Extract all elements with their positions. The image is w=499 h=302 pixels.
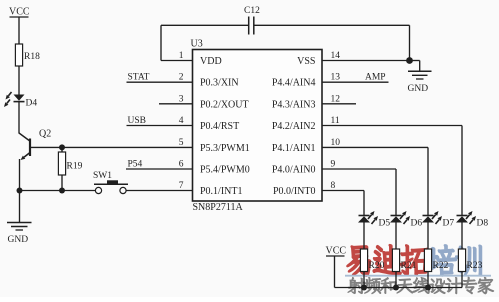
svg-text:12: 12 bbox=[331, 94, 341, 104]
svg-text:1: 1 bbox=[179, 51, 184, 61]
watermark subtitle 射频和天线设计专家 bbox=[348, 277, 494, 294]
node USB (pin 4 wire) bbox=[127, 116, 193, 126]
svg-text:4: 4 bbox=[179, 116, 184, 126]
resistor R20 bbox=[360, 249, 384, 272]
svg-text:P5.4/PWM0: P5.4/PWM0 bbox=[200, 165, 250, 176]
ground GND (top right) bbox=[408, 71, 432, 94]
svg-text:9: 9 bbox=[331, 160, 336, 170]
junction emitter/rail bbox=[17, 188, 23, 194]
svg-text:10: 10 bbox=[331, 138, 341, 148]
svg-text:D6: D6 bbox=[411, 219, 423, 229]
LED D7 bbox=[422, 211, 454, 229]
svg-text:R20: R20 bbox=[369, 261, 385, 271]
svg-text:P5.3/PWM1: P5.3/PWM1 bbox=[200, 143, 250, 154]
wire D7 to R22 bbox=[427, 223, 429, 250]
svg-text:8: 8 bbox=[331, 181, 336, 191]
watermark underline bbox=[345, 275, 491, 277]
resistor R22 bbox=[424, 249, 448, 272]
svg-text:13: 13 bbox=[331, 73, 341, 83]
wire D5 to R20 bbox=[363, 223, 365, 250]
svg-text:P0.1/INT1: P0.1/INT1 bbox=[200, 186, 243, 197]
svg-text:P4.1/AIN1: P4.1/AIN1 bbox=[272, 143, 316, 154]
wire pin 12 stub bbox=[322, 103, 356, 105]
svg-text:D8: D8 bbox=[477, 219, 489, 229]
wire Q2 emitter down bbox=[19, 159, 21, 191]
wire R22 to VCC rail bbox=[427, 272, 429, 288]
wire D6 to R21 bbox=[395, 223, 397, 250]
wire SW1 to pin 7 (P0.1/INT1) bbox=[126, 190, 192, 192]
junction R19/rail bbox=[59, 188, 65, 194]
svg-text:P4.0/AIN0: P4.0/AIN0 bbox=[272, 165, 316, 176]
wire pin 10 to D7 bbox=[322, 146, 428, 148]
svg-text:R21: R21 bbox=[401, 261, 417, 271]
junction base/R19 bbox=[59, 144, 65, 150]
svg-text:11: 11 bbox=[331, 116, 340, 126]
ground GND (left) bbox=[7, 191, 32, 246]
LED D4 bbox=[4, 92, 37, 109]
svg-text:P0.0/INT0: P0.0/INT0 bbox=[273, 186, 316, 197]
wire pin 1 up to C12 net bbox=[160, 25, 162, 60]
resistor R18 bbox=[15, 44, 40, 66]
svg-text:STAT: STAT bbox=[128, 73, 150, 83]
wire Q2 base to pin 5 (P5.3/PWM1) bbox=[30, 146, 193, 148]
svg-text:SN8P2711A: SN8P2711A bbox=[193, 202, 244, 213]
bottom rail wire (emitter/GND) bbox=[20, 190, 96, 192]
svg-text:VCC: VCC bbox=[326, 246, 347, 257]
wire pin 11 to D8 bbox=[322, 125, 462, 127]
svg-text:VDD: VDD bbox=[200, 56, 222, 67]
junction VSS/C12/GND bbox=[406, 57, 413, 64]
wire D4 to Q2 collector bbox=[18, 102, 20, 134]
svg-text:P4.3/AIN3: P4.3/AIN3 bbox=[272, 99, 316, 110]
svg-text:3: 3 bbox=[179, 94, 184, 104]
wire pin 8 to D5 bbox=[322, 190, 364, 192]
wire D8 to R23 bbox=[461, 223, 463, 250]
svg-text:AMP: AMP bbox=[365, 73, 386, 83]
node STAT (pin 2 wire) bbox=[127, 73, 193, 83]
junction rail bbox=[361, 285, 367, 291]
svg-text:R23: R23 bbox=[467, 261, 483, 271]
svg-text:D5: D5 bbox=[379, 219, 391, 229]
svg-text:C12: C12 bbox=[244, 6, 260, 16]
resistor R19 bbox=[58, 147, 82, 190]
svg-text:P4.2/AIN2: P4.2/AIN2 bbox=[272, 121, 316, 132]
switch SW1 bbox=[93, 171, 128, 194]
svg-text:USB: USB bbox=[128, 116, 146, 126]
svg-text:R22: R22 bbox=[433, 261, 449, 271]
node P54 (pin 6 wire) bbox=[126, 159, 193, 169]
svg-text:VCC: VCC bbox=[9, 7, 30, 18]
power VCC (bottom) bbox=[326, 246, 347, 288]
svg-text:P4.4/AIN4: P4.4/AIN4 bbox=[272, 78, 316, 89]
wire pin 9 to D6 bbox=[322, 168, 396, 170]
wire pin 14 (VSS) bbox=[322, 60, 410, 62]
IC U3 SN8P2711A body bbox=[193, 50, 323, 202]
junction rail bbox=[425, 285, 431, 291]
svg-text:2: 2 bbox=[179, 73, 184, 83]
power VCC (top left) bbox=[9, 7, 30, 18]
svg-text:SW1: SW1 bbox=[93, 171, 112, 181]
svg-text:14: 14 bbox=[331, 51, 341, 61]
resistor R23 bbox=[458, 249, 482, 272]
LED D8 bbox=[456, 211, 488, 229]
svg-text:D4: D4 bbox=[26, 99, 38, 109]
capacitor C12 bbox=[244, 6, 260, 35]
VCC rail wire (bottom right) bbox=[335, 287, 463, 289]
wire R20 to VCC rail bbox=[363, 272, 365, 288]
node AMP (pin 13 wire) bbox=[322, 73, 389, 83]
junction rail bbox=[393, 285, 399, 291]
wire top net left segment bbox=[161, 24, 249, 26]
svg-text:U3: U3 bbox=[191, 39, 203, 50]
svg-text:Q2: Q2 bbox=[39, 129, 51, 140]
svg-text:GND: GND bbox=[408, 84, 429, 94]
svg-text:GND: GND bbox=[8, 235, 29, 245]
transistor Q2 bbox=[19, 129, 51, 161]
wire VCC to R18 bbox=[18, 17, 20, 44]
watermark logo big text 易迪拓培训 bbox=[347, 245, 481, 276]
svg-text:VSS: VSS bbox=[297, 56, 315, 67]
wire R18 to D4 bbox=[18, 66, 20, 95]
LED D5 bbox=[358, 211, 390, 229]
svg-text:D7: D7 bbox=[443, 219, 455, 229]
svg-text:5: 5 bbox=[179, 138, 184, 148]
svg-text:P0.3/XIN: P0.3/XIN bbox=[200, 78, 239, 89]
svg-text:P54: P54 bbox=[128, 159, 143, 169]
svg-text:7: 7 bbox=[179, 181, 184, 191]
svg-text:P0.4/RST: P0.4/RST bbox=[200, 121, 239, 132]
wire down to VSS node bbox=[409, 25, 411, 60]
wire R21 to VCC rail bbox=[395, 272, 397, 288]
wire R23 to VCC rail bbox=[461, 272, 463, 288]
svg-text:R19: R19 bbox=[67, 162, 83, 172]
wire pin 1 (VDD) bbox=[161, 60, 193, 62]
wire top net right segment bbox=[254, 24, 410, 26]
wire pin 3 bbox=[159, 103, 193, 105]
svg-text:P0.2/XOUT: P0.2/XOUT bbox=[200, 99, 249, 110]
resistor R21 bbox=[392, 249, 416, 272]
svg-text:6: 6 bbox=[179, 160, 184, 170]
LED D6 bbox=[390, 211, 422, 229]
wire VSS node to ground bbox=[410, 60, 420, 62]
svg-text:R18: R18 bbox=[24, 52, 40, 62]
